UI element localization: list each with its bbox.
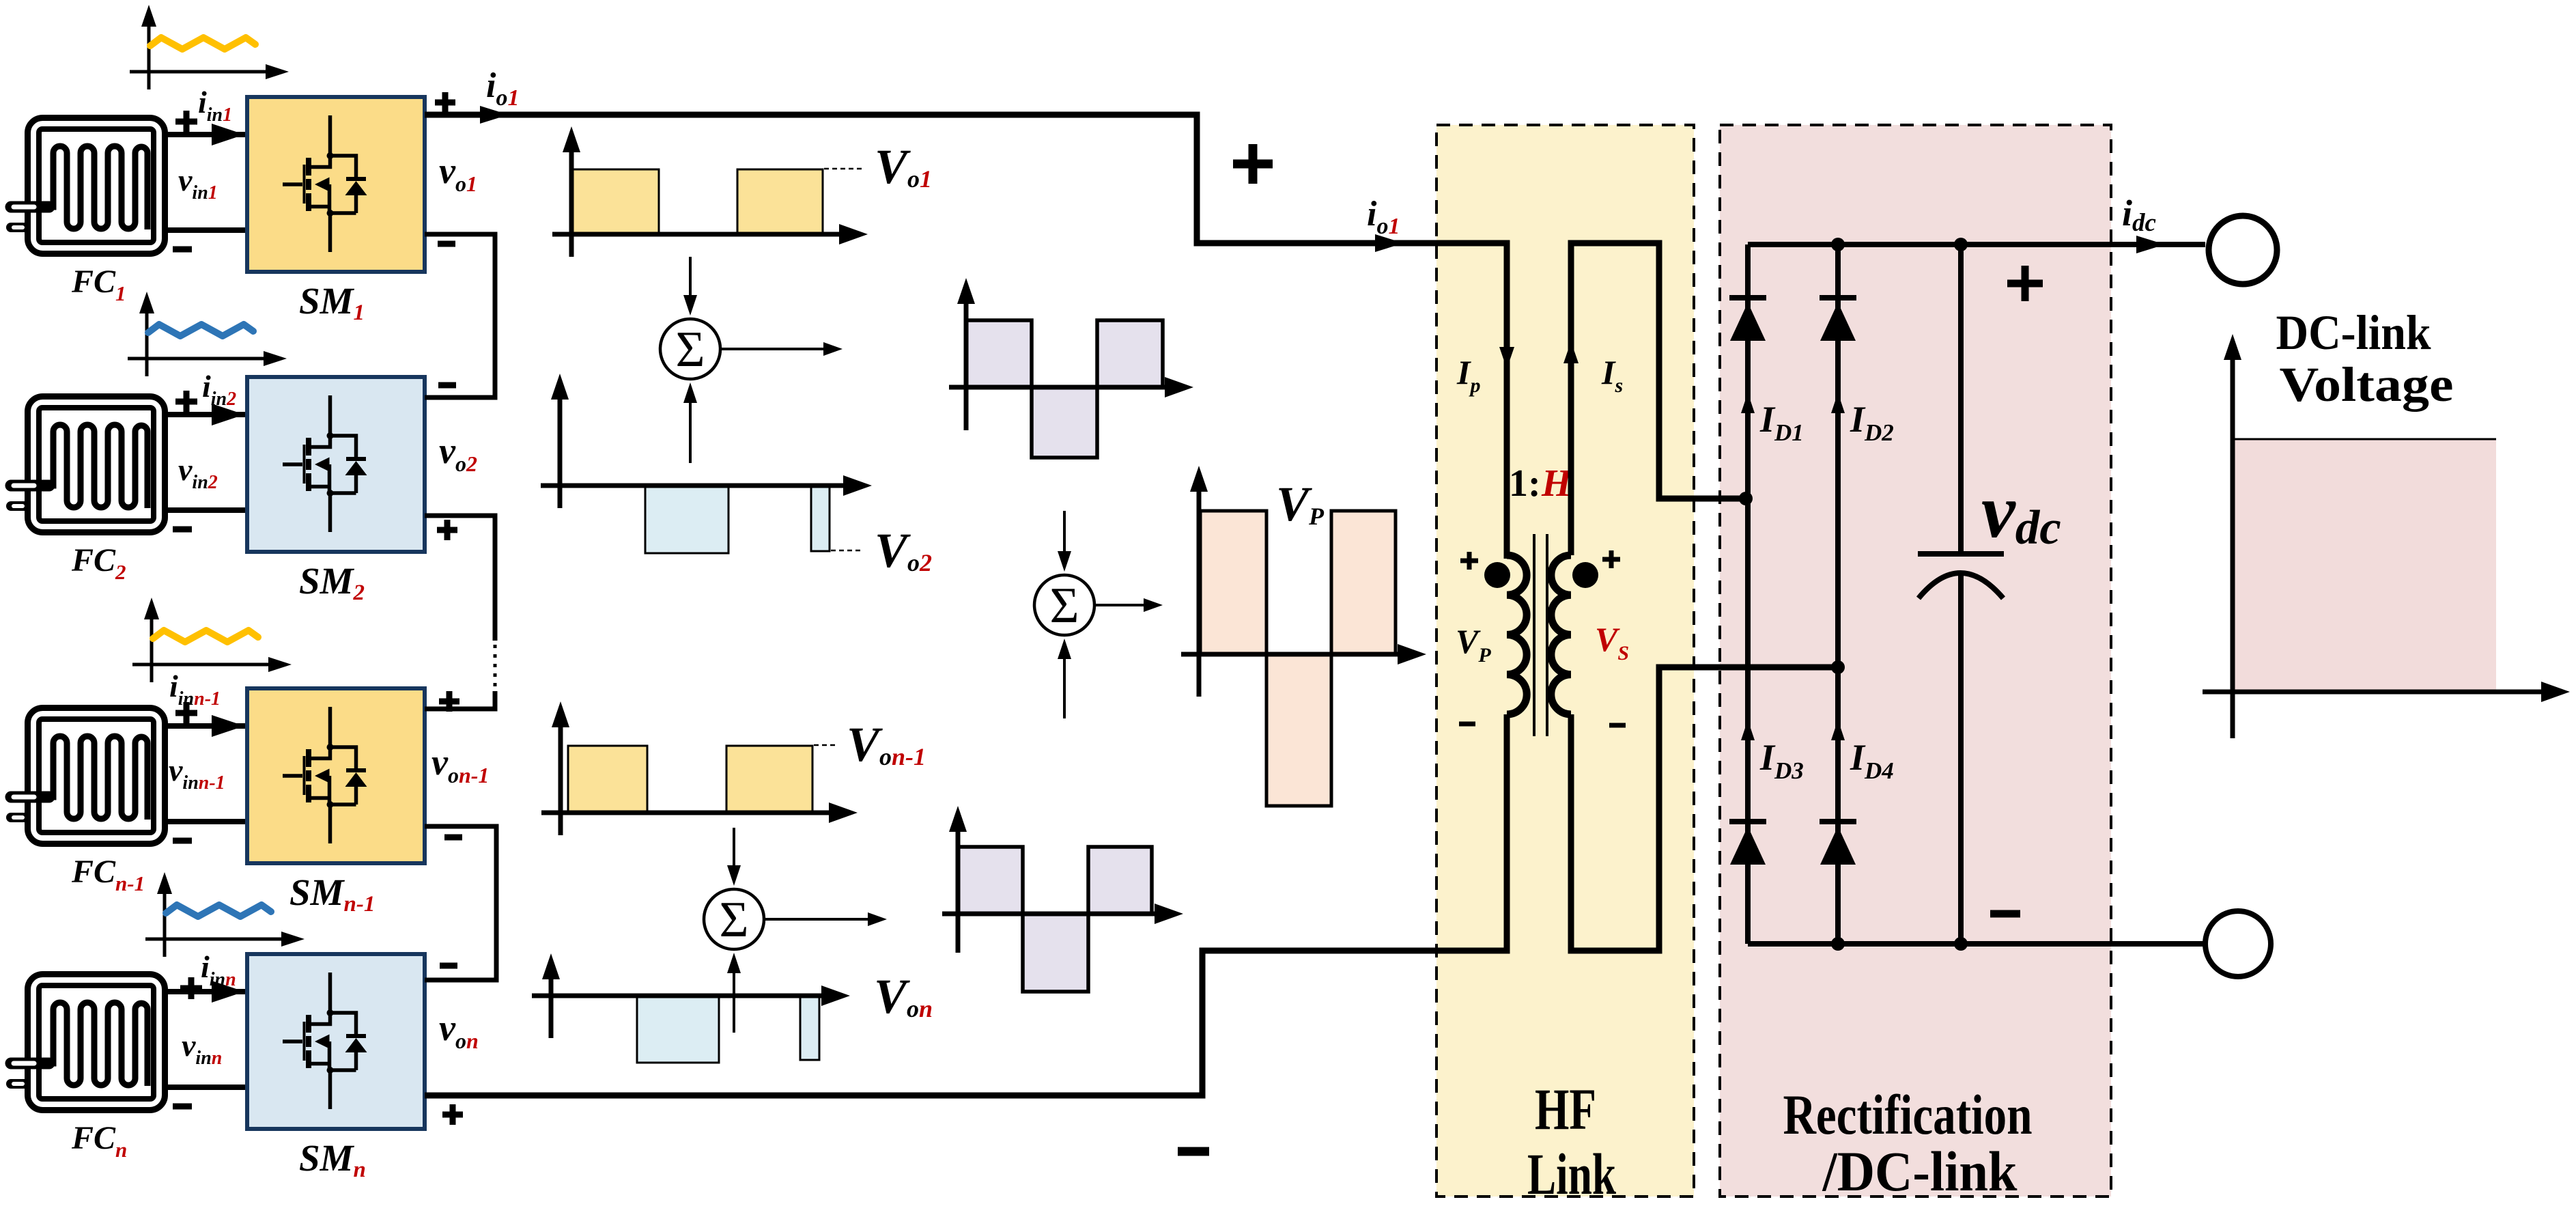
wire SM2+ down — [425, 516, 495, 641]
fuel cell FCn — [11, 975, 165, 1110]
square wave plot 1 pulse B — [1032, 387, 1097, 458]
minus input FCn — [173, 1104, 192, 1110]
i_dc arrowhead — [2136, 236, 2165, 253]
square wave plot 2 trace — [958, 847, 1152, 992]
V_P trace — [1200, 511, 1396, 806]
V_on axes — [549, 970, 554, 1038]
sum2 arrow in top — [733, 828, 735, 869]
fuel cell FC1 — [11, 118, 165, 254]
sum2 arrow out — [763, 918, 868, 921]
wire FC1 + input — [168, 132, 247, 137]
V_on pulse 2 — [800, 996, 819, 1060]
wire FCn-1 + input — [168, 723, 247, 729]
input current arrowhead — [212, 715, 244, 737]
submodule SM1 box — [247, 97, 425, 272]
V_P axes — [1197, 482, 1202, 697]
wire FCn-1 - input — [168, 819, 247, 824]
plus SM2 out — [437, 520, 457, 540]
square wave plot 2 pulse A — [958, 847, 1023, 914]
sum3 arrow in top — [1063, 511, 1066, 555]
svg-text:Voltage: Voltage — [2280, 357, 2454, 412]
V_on-1 leader — [814, 744, 838, 746]
DC-link voltage fill — [2234, 439, 2496, 692]
capacitor C_dc — [1958, 244, 1964, 551]
wire secondary bottom — [1571, 667, 1835, 951]
submodule SM2 box — [247, 377, 425, 552]
diode D2 — [1820, 295, 1856, 300]
carrier wave plot 3 — [132, 598, 292, 682]
submodule SMn-1 box — [247, 688, 425, 863]
SM1 MOSFET — [283, 115, 367, 252]
svg-text:H: H — [1541, 462, 1572, 505]
plus SMn out — [442, 1104, 463, 1125]
terminal circle top — [2209, 216, 2277, 284]
I_D2 arrow — [1831, 393, 1845, 413]
big plus top — [1233, 144, 1273, 184]
sum1 arrow in bottom — [689, 399, 692, 463]
square wave plot 2 axes — [956, 822, 961, 953]
V_P pulse 3 — [1331, 511, 1396, 654]
carrier wave plot 2 — [128, 292, 287, 376]
square wave plot 1 pulse A — [966, 320, 1032, 387]
secondary dot — [1572, 562, 1598, 588]
svg-text:DC-link: DC-link — [2276, 305, 2431, 360]
minus secondary — [1609, 723, 1626, 728]
I_D1 arrow — [1741, 393, 1755, 413]
V_P pulse 2 — [1266, 654, 1331, 806]
wire secondary top — [1571, 243, 1745, 555]
V_o1 pulse 2 — [737, 169, 823, 234]
SMn MOSFET — [283, 973, 367, 1109]
V_P pulse 1 — [1200, 511, 1266, 654]
svg-text:1:: 1: — [1509, 462, 1541, 505]
plus input FCn — [180, 977, 202, 999]
V_o2 leader — [831, 550, 864, 552]
input current arrowhead — [212, 404, 244, 425]
bridge right column — [1835, 244, 1841, 944]
io1 arrowhead near SM1 — [480, 106, 509, 124]
plus input FC1 — [175, 111, 197, 132]
V_o1 leader — [824, 168, 864, 170]
sum block 1 — [660, 319, 720, 379]
svg-text:/DC-link: /DC-link — [1822, 1140, 2018, 1203]
transformer secondary winding — [1551, 555, 1571, 714]
HF Link section box — [1436, 125, 1694, 1197]
sum1 arrow in top — [689, 257, 692, 299]
sum3 arrow in bottom — [1063, 655, 1066, 718]
wire SMn-1 - to SMn - — [425, 826, 496, 980]
minus SM1 out — [438, 241, 455, 247]
sum1 arrow out — [720, 348, 823, 350]
input current arrowhead — [212, 124, 244, 145]
plus SMn-1 out — [439, 691, 459, 712]
V_on pulse 1 — [637, 996, 719, 1063]
plus SM1 out — [435, 92, 455, 113]
wire FCn - input — [168, 1085, 247, 1090]
I_s arrow — [1563, 341, 1579, 363]
wire io1 top bus — [425, 115, 1507, 559]
plus dc — [2007, 266, 2043, 301]
square wave plot 2 pulse C — [1088, 847, 1152, 914]
node bottom junctions — [1831, 937, 1845, 951]
minus SM2 out — [438, 382, 456, 389]
fuel cell FC2 — [11, 397, 165, 533]
I_D4 arrow — [1831, 720, 1845, 740]
wire bottom bus from SMn — [425, 714, 1507, 1095]
DC-link voltage top line — [2234, 438, 2496, 440]
dotted continuation — [494, 645, 497, 688]
minus input FCn-1 — [173, 838, 192, 844]
diode D3 — [1729, 819, 1766, 824]
square wave plot 1 pulse C — [1097, 320, 1163, 387]
plus input FC2 — [175, 391, 197, 412]
carrier wave plot 4 — [145, 872, 305, 957]
wire bottom bus — [1748, 941, 2206, 947]
wire top bus — [1748, 242, 2205, 247]
Rectification/DC-link section box — [1720, 125, 2111, 1197]
node mid-left junction — [1739, 492, 1753, 505]
sum2 arrow in bottom — [733, 969, 735, 1033]
svg-text:HF: HF — [1535, 1076, 1596, 1142]
carrier wave plot 1 — [130, 5, 289, 89]
V_o2 pulse 1 — [645, 486, 728, 553]
transformer core — [1534, 534, 1547, 736]
SMn-1 MOSFET — [283, 707, 367, 843]
minus primary — [1459, 722, 1475, 727]
SM2 MOSFET — [283, 395, 367, 532]
sum block 2 — [704, 889, 764, 949]
square wave plot 1 axes — [964, 294, 969, 430]
node top-left junction — [1831, 238, 1845, 251]
minus SMn out — [440, 963, 457, 969]
plus primary — [1460, 552, 1478, 570]
terminal circle bottom — [2205, 911, 2271, 977]
square wave plot 1 trace — [966, 320, 1163, 458]
sum3 arrow out — [1095, 604, 1144, 606]
minus dc — [1990, 910, 2020, 918]
V_on-1 pulse 2 — [726, 746, 812, 813]
submodule SMn box — [247, 954, 425, 1129]
node top-cap junction — [1954, 238, 1968, 251]
wire FCn + input — [168, 989, 247, 994]
wire FC2 - input — [168, 507, 247, 513]
square wave plot 2 pulse B — [1023, 914, 1088, 992]
wire FC1 - input — [168, 227, 247, 233]
plus secondary — [1602, 550, 1620, 568]
V_on-1 axes — [558, 718, 563, 835]
minus SMn-1 out — [444, 835, 462, 841]
diode D1 — [1729, 295, 1766, 300]
input current arrowhead — [212, 981, 244, 1003]
wire FC2 + input — [168, 412, 247, 417]
I_p arrow — [1499, 347, 1514, 369]
diode D4 — [1820, 819, 1856, 824]
minus input FC2 — [173, 527, 192, 533]
minus input FC1 — [173, 247, 192, 253]
fuel cell FCn-1 — [11, 708, 165, 844]
plus input FCn-1 — [175, 702, 197, 724]
sum block 3 — [1034, 575, 1094, 635]
wire SM1- to SM2- — [425, 234, 495, 397]
node mid-right junction — [1831, 660, 1845, 674]
bridge left column — [1745, 244, 1751, 944]
io1 arrowhead near HF link — [1375, 234, 1404, 252]
primary dot — [1484, 562, 1510, 588]
V_o1 pulse 1 — [573, 169, 659, 234]
big minus bottom — [1178, 1147, 1209, 1156]
transformer primary winding — [1507, 555, 1527, 714]
V_on-1 pulse 1 — [568, 746, 647, 813]
V_o1 axes — [569, 143, 574, 257]
svg-text:Rectification: Rectification — [1783, 1083, 2033, 1146]
I_D3 arrow — [1741, 720, 1755, 740]
svg-text:Link: Link — [1527, 1141, 1616, 1207]
wire to SMn-1 + — [425, 691, 495, 709]
V_o2 axes — [558, 390, 563, 508]
V_o2 pulse 2 — [811, 486, 830, 551]
DC-link plot axes — [2231, 350, 2235, 738]
